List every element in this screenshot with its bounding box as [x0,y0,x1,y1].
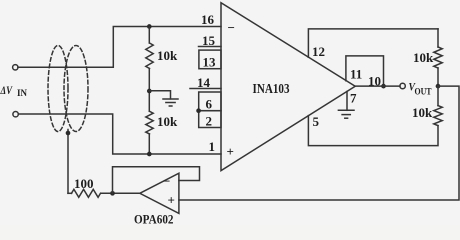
svg-text:1: 1 [209,139,216,154]
pin 14 stub wire [190,88,221,90]
wire R5 to U2 output [101,192,140,194]
wire R1 to R2 [148,69,150,112]
op-amp U2 OPA602 triangle [140,173,179,213]
svg-text:15: 15 [202,33,216,48]
svg-text:12: 12 [312,44,325,59]
input terminal circle top (+IN) [13,65,18,70]
resistor R5 100 [72,189,101,197]
svg-text:5: 5 [313,114,320,129]
svg-text:10k: 10k [157,48,178,63]
svg-text:−: − [163,174,170,189]
node C: pin1 rail junction [147,152,152,157]
pin 7 stub wire [346,92,348,111]
cable shield dashed ellipse right [64,46,88,132]
node F: pin10 output junction [381,84,386,89]
svg-text:OPA602: OPA602 [134,213,174,226]
svg-text:6: 6 [206,97,213,112]
svg-text:INA103: INA103 [253,81,290,96]
U2 feedback loop wire [113,167,200,194]
wire input1 to INA103 pin16 [18,27,221,68]
svg-text:13: 13 [203,55,217,70]
node E: divider midpoint [436,84,441,89]
pin 2 box [199,111,221,128]
svg-text:−: − [228,20,235,35]
pin 6 box [199,92,221,111]
resistor R1 10k upper-left [146,43,153,69]
svg-text:ΔV: ΔV [0,83,13,97]
svg-text:10k: 10k [413,50,434,65]
node H: U2 output junction [110,191,115,196]
resistor R4 10k lower-right [434,106,442,126]
label Vout [409,80,433,98]
svg-text:+: + [227,144,234,159]
label dV IN [0,83,28,98]
svg-text:11: 11 [350,66,362,81]
node G: shield connection dot [66,131,71,136]
pin 15 stub wire [199,46,222,48]
output terminal circle [400,83,405,88]
ground symbol left [163,99,178,106]
svg-text:10k: 10k [157,114,178,129]
pin 13 box [199,50,221,69]
svg-text:OUT: OUT [415,87,433,97]
cable shield dashed ellipse left [48,46,68,132]
output wire [355,85,400,87]
svg-text:7: 7 [350,91,357,106]
wire R4 bottom to pin 5 [308,116,438,146]
wire pin 11 to pin 10 loop [346,56,384,86]
svg-text:2: 2 [206,114,213,129]
input terminal circle bottom (-IN) [13,112,18,117]
shield drain wire [67,130,69,194]
node B: ground tap junction [147,89,152,94]
node D: pins 6-2 junction dot [196,108,201,113]
wire divider mid to R4 [437,86,439,106]
svg-text:100: 100 [74,176,94,191]
wire divider mid to right edge down to U2 plus input [179,86,459,200]
svg-text:10k: 10k [412,105,433,120]
wire R3 to divider mid [437,68,439,86]
svg-text:14: 14 [197,75,211,90]
op-amp U1 INA103 triangle [221,3,355,171]
wire input2 to INA103 pin1 [18,114,221,154]
resistor R2 10k lower-left [146,111,153,134]
wire R2 to pin1 rail [148,134,150,154]
ground symbol right [338,110,354,118]
wire node B to ground [149,91,170,99]
wire node A down to R1 [148,27,150,44]
svg-text:+: + [168,193,175,208]
wire top rail down to R3 [437,29,439,47]
wire drain to R5 [68,192,72,194]
svg-text:IN: IN [17,88,28,98]
svg-text:16: 16 [201,12,215,27]
resistor R3 10k upper-right [434,47,442,68]
wire pin 12 up and over to R3 top [308,29,438,57]
node A: top rail junction [147,24,152,29]
